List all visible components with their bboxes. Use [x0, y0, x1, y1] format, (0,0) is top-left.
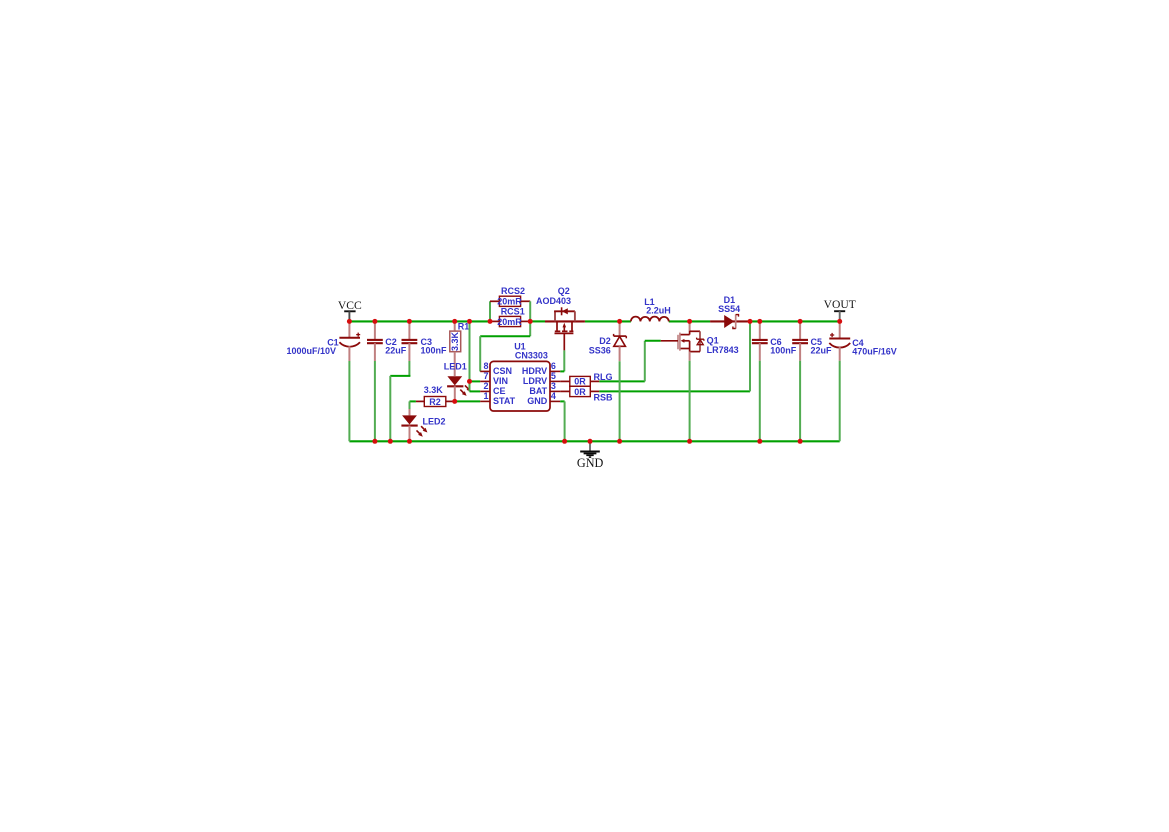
- wire C5 to ground bus: [799, 361, 801, 442]
- svg-text:22uF: 22uF: [385, 346, 407, 356]
- capacitor C2: [367, 321, 383, 361]
- wire CSN horizontal: [480, 335, 530, 337]
- label L1: [644, 297, 655, 307]
- svg-text:GND: GND: [527, 396, 548, 406]
- label C3 value: [421, 346, 448, 356]
- wire RSB riser: [749, 321, 751, 391]
- wire bus to VIN: [469, 321, 471, 391]
- resistor RCS2: [490, 296, 530, 306]
- junction: [407, 319, 412, 324]
- wire bus L1 to D1: [669, 320, 710, 322]
- svg-text:STAT: STAT: [493, 396, 516, 406]
- wire GND pin to bus: [560, 401, 564, 441]
- inductor L1: [631, 317, 669, 322]
- label RCS2 value: [497, 297, 522, 307]
- svg-text:RSB: RSB: [594, 392, 614, 402]
- svg-text:Q2: Q2: [558, 286, 570, 296]
- label D2 value: [589, 346, 611, 356]
- svg-text:VIN: VIN: [493, 376, 508, 386]
- label C5: [811, 337, 823, 347]
- junction: [757, 319, 762, 324]
- label Q2: [558, 286, 570, 296]
- svg-text:1000uF/10V: 1000uF/10V: [287, 346, 337, 356]
- svg-text:VCC: VCC: [338, 299, 362, 312]
- label C6 value: [770, 346, 797, 356]
- capacitor C5: [792, 321, 808, 360]
- svg-text:22uF: 22uF: [811, 346, 833, 356]
- svg-text:CE: CE: [493, 386, 506, 396]
- svg-text:LED1: LED1: [444, 362, 467, 372]
- capacitor C4: [829, 321, 850, 360]
- svg-text:3: 3: [551, 381, 556, 391]
- pin 5 LDRV: [523, 371, 560, 386]
- label C4 value: [852, 346, 897, 356]
- label Q1 value: [707, 345, 739, 355]
- junction: [687, 439, 692, 444]
- svg-text:LDRV: LDRV: [523, 376, 547, 386]
- resistor R1: [450, 321, 461, 351]
- wire D2 to ground bus: [619, 361, 621, 441]
- label RCS1: [501, 307, 525, 317]
- LED LED2: [401, 409, 427, 441]
- wire Q1 source to ground bus: [689, 361, 691, 442]
- LED LED1: [447, 376, 471, 401]
- label C3: [421, 337, 433, 347]
- wire bus D1 to VOUT: [750, 320, 840, 322]
- svg-text:100nF: 100nF: [421, 346, 448, 356]
- power flag VOUT: [824, 298, 856, 322]
- label RCS1 value: [497, 317, 522, 327]
- junction: [562, 439, 567, 444]
- label R2 value: [424, 385, 444, 395]
- svg-text:SS54: SS54: [718, 304, 740, 314]
- svg-text:RCS1: RCS1: [501, 307, 525, 317]
- wire RCS2 right leg: [529, 301, 531, 321]
- wire C3 to ground bus: [389, 376, 391, 441]
- wire C1 to ground bus: [348, 361, 350, 441]
- pin 7 VIN: [480, 371, 508, 386]
- resistor R-LG 0R: [560, 376, 599, 386]
- junction: [757, 439, 762, 444]
- svg-text:AOD403: AOD403: [536, 296, 571, 306]
- svg-text:1: 1: [483, 391, 488, 401]
- svg-text:BAT: BAT: [529, 386, 547, 396]
- junction: [588, 439, 593, 444]
- transistor Q1: [661, 321, 704, 360]
- label net RLG: [594, 372, 613, 382]
- label C2 value: [385, 346, 407, 356]
- junction: [407, 439, 412, 444]
- svg-text:RLG: RLG: [594, 372, 613, 382]
- label C2: [385, 337, 397, 347]
- resistor R2: [416, 397, 455, 407]
- wire C3 down: [408, 361, 410, 376]
- svg-text:4: 4: [551, 391, 556, 401]
- svg-text:6: 6: [551, 361, 556, 371]
- wire R1 to LED1: [454, 352, 456, 376]
- junction: [388, 439, 393, 444]
- label C6: [770, 337, 782, 347]
- svg-text:3.3K: 3.3K: [424, 385, 444, 395]
- junction: [467, 379, 472, 384]
- label RCS2: [501, 286, 525, 296]
- resistor R-SB 0R: [560, 386, 599, 397]
- wire bus Q2 to L1: [585, 320, 631, 322]
- op-amp U1 CN3303 body: [490, 342, 550, 412]
- svg-text:CSN: CSN: [493, 366, 512, 376]
- svg-text:HDRV: HDRV: [522, 366, 547, 376]
- wire GND bus: [349, 440, 839, 442]
- junction: [372, 439, 377, 444]
- wire STAT net: [455, 400, 481, 402]
- label LED1: [444, 362, 467, 372]
- wire C3 jog: [390, 375, 410, 377]
- wire bus RCS1 to Q2: [530, 320, 545, 322]
- transistor Q2: [545, 307, 585, 350]
- diode D1 SS54: [710, 314, 750, 328]
- svg-text:20mR: 20mR: [497, 297, 522, 307]
- svg-text:2.2uH: 2.2uH: [646, 306, 671, 316]
- junction: [617, 439, 622, 444]
- label C5 value: [811, 346, 833, 356]
- wire RSB horizontal: [599, 390, 750, 392]
- label D2: [599, 336, 611, 346]
- resistor RCS1: [490, 316, 530, 326]
- junction: [528, 319, 533, 324]
- wire Q2 gate to HDRV: [560, 350, 564, 371]
- svg-text:LR7843: LR7843: [707, 345, 739, 355]
- wire RCS2 left leg: [489, 301, 491, 321]
- svg-text:0R: 0R: [574, 387, 586, 397]
- pin 8 CSN: [480, 361, 512, 376]
- pin 2 CE: [480, 381, 505, 396]
- svg-text:8: 8: [483, 361, 488, 371]
- wire VIN stub: [470, 380, 481, 382]
- label C1: [327, 337, 339, 347]
- junction: [617, 319, 622, 324]
- capacitor C6: [752, 321, 768, 360]
- svg-text:2: 2: [483, 381, 488, 391]
- svg-text:SS36: SS36: [589, 346, 611, 356]
- wire CSN drop: [529, 321, 531, 336]
- wire CE stub: [470, 390, 481, 392]
- svg-text:100nF: 100nF: [770, 346, 797, 356]
- wire RLG to gate: [645, 340, 661, 342]
- junction: [687, 319, 692, 324]
- capacitor C3: [402, 321, 418, 361]
- svg-text:VOUT: VOUT: [824, 298, 856, 311]
- svg-text:LED2: LED2: [423, 416, 446, 426]
- svg-text:0R: 0R: [574, 377, 586, 387]
- junction: [488, 319, 493, 324]
- wire C2 to ground bus: [374, 361, 376, 441]
- label LED2: [423, 416, 446, 426]
- pin 3 BAT: [529, 381, 560, 396]
- svg-text:7: 7: [483, 371, 488, 381]
- pin 1 STAT: [480, 391, 515, 406]
- svg-text:R1: R1: [458, 322, 470, 332]
- power flag VCC: [338, 299, 362, 321]
- svg-text:3.3K: 3.3K: [450, 331, 460, 351]
- svg-text:5: 5: [551, 371, 556, 381]
- label D1: [724, 295, 736, 305]
- svg-text:470uF/16V: 470uF/16V: [852, 346, 897, 356]
- junction: [372, 319, 377, 324]
- diode D2 SS36: [614, 321, 627, 361]
- wire C6 to ground bus: [759, 361, 761, 442]
- label net RSB: [594, 392, 614, 402]
- wire C4 to ground bus: [839, 361, 841, 442]
- svg-text:R2: R2: [429, 397, 441, 407]
- junction: [467, 319, 472, 324]
- wire RLG riser: [644, 341, 646, 382]
- pin 4 GND: [527, 391, 560, 406]
- svg-text:CN3303: CN3303: [515, 351, 548, 361]
- label Q1: [707, 336, 719, 346]
- label C4: [852, 338, 864, 348]
- junction: [837, 319, 842, 324]
- junction: [347, 319, 352, 324]
- ground symbol GND: [577, 441, 604, 470]
- wire RLG horizontal: [599, 380, 645, 382]
- svg-text:20mR: 20mR: [497, 317, 522, 327]
- svg-text:GND: GND: [577, 456, 604, 470]
- label D1 value: [718, 304, 740, 314]
- label Q2 value: [536, 296, 571, 306]
- svg-text:RCS2: RCS2: [501, 286, 525, 296]
- capacitor C1: [339, 321, 360, 361]
- wire VCC bus segment: [349, 320, 490, 322]
- wire R2 to LED2: [410, 401, 416, 409]
- pin 6 HDRV: [522, 361, 560, 376]
- wire CSN to pin8: [479, 336, 481, 371]
- junction: [798, 439, 803, 444]
- label R1: [458, 322, 470, 332]
- label L1 value: [646, 306, 671, 316]
- label C1 value: [287, 346, 337, 356]
- junction: [452, 319, 457, 324]
- junction: [452, 399, 457, 404]
- svg-text:D2: D2: [599, 336, 611, 346]
- junction: [798, 319, 803, 324]
- junction: [748, 319, 753, 324]
